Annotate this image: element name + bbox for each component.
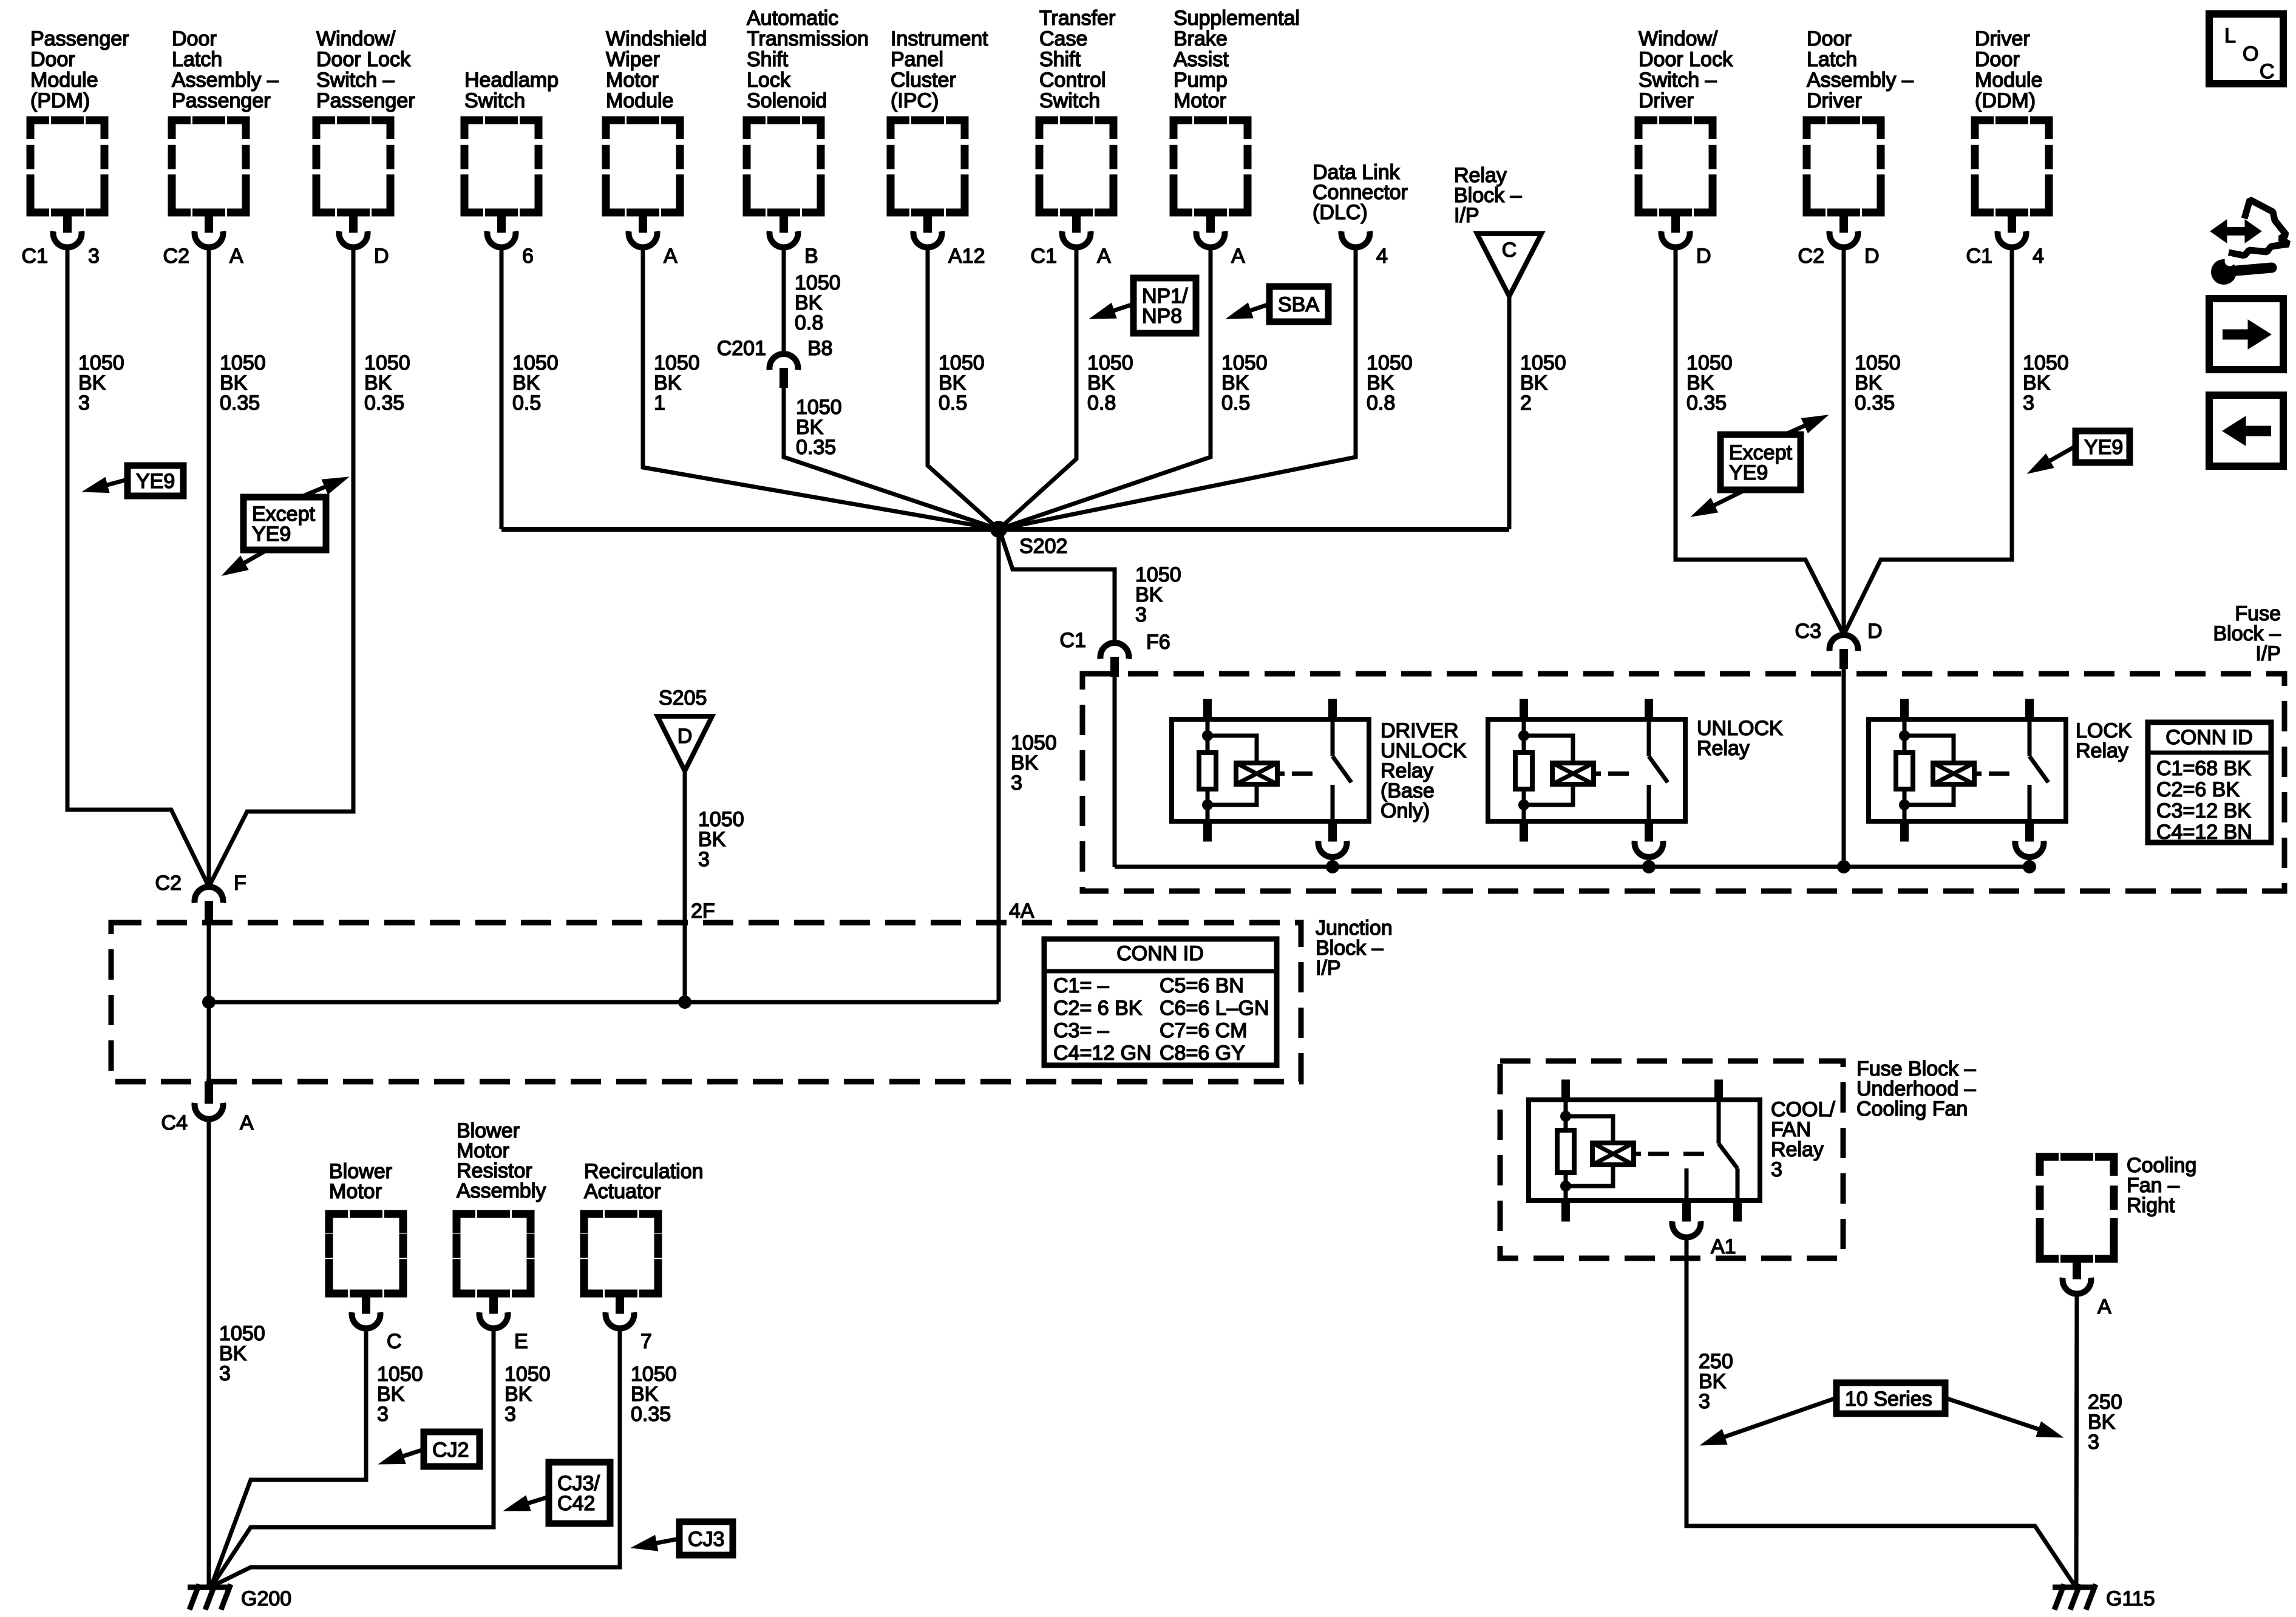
svg-text:E: E bbox=[514, 1330, 528, 1353]
connector box Window/Door Lock Switch Driver bbox=[1639, 27, 1733, 268]
svg-text:Door: Door bbox=[1975, 48, 2020, 71]
relay block triangle C bbox=[1477, 234, 1541, 296]
connector box Automatic Transmission Shift Lock Solenoid bbox=[747, 7, 869, 268]
junction dot C3 wire bbox=[1837, 860, 1850, 873]
svg-text:G200: G200 bbox=[241, 1587, 291, 1610]
svg-text:C2: C2 bbox=[155, 872, 182, 895]
junction dot driver unlock bbox=[1326, 860, 1339, 873]
svg-text:4: 4 bbox=[1376, 245, 1388, 268]
data link connector (DLC) label bbox=[1313, 161, 1408, 224]
svg-text:(DDM): (DDM) bbox=[1975, 89, 2036, 112]
junction block I/P label bbox=[1316, 917, 1393, 980]
svg-text:0.5: 0.5 bbox=[512, 392, 541, 415]
svg-text:3: 3 bbox=[1011, 771, 1022, 795]
pin label 4 DLC bbox=[1376, 245, 1388, 268]
svg-text:0.8: 0.8 bbox=[1087, 392, 1116, 415]
wire label 0.5 for Instrument Panel Cluster bbox=[939, 351, 985, 415]
svg-text:3: 3 bbox=[1699, 1390, 1710, 1413]
unlock relay label bbox=[1697, 717, 1783, 760]
svg-text:C2: C2 bbox=[1798, 245, 1824, 268]
svg-text:0.35: 0.35 bbox=[796, 436, 836, 459]
svg-text:2: 2 bbox=[1520, 392, 1532, 415]
wire S205 to junction block 2F bbox=[683, 771, 687, 1002]
svg-text:C2=6 BK: C2=6 BK bbox=[2156, 778, 2240, 801]
driver unlock relay label bbox=[1381, 719, 1467, 822]
fuse block I/P dashed border bbox=[1082, 674, 2284, 891]
connector box Supplemental Brake Assist Pump Motor bbox=[1173, 7, 1300, 268]
wire S202 to junction block 4A bbox=[997, 529, 1001, 1002]
lock relay label bbox=[2076, 719, 2132, 762]
svg-text:4A: 4A bbox=[1009, 900, 1034, 923]
callout YE9 left bbox=[83, 466, 183, 496]
svg-text:C4: C4 bbox=[161, 1111, 188, 1134]
svg-text:A12: A12 bbox=[948, 245, 985, 268]
svg-text:Assembly –: Assembly – bbox=[1807, 69, 1914, 92]
wire label 0.5 for Headlamp Switch bbox=[512, 351, 559, 415]
svg-text:3: 3 bbox=[78, 392, 90, 415]
junction block internal bus bbox=[209, 1000, 999, 1005]
ground G115 bbox=[2053, 1584, 2155, 1610]
callout CJ3 bbox=[631, 1522, 733, 1555]
svg-text:C1: C1 bbox=[1031, 245, 1057, 268]
svg-text:Cooling Fan: Cooling Fan bbox=[1856, 1097, 1968, 1120]
svg-text:Switch: Switch bbox=[1039, 89, 1100, 112]
svg-text:SBA: SBA bbox=[1278, 293, 1319, 316]
svg-text:C7=6 CM: C7=6 CM bbox=[1160, 1019, 1248, 1042]
svg-text:Supplemental: Supplemental bbox=[1173, 7, 1300, 30]
svg-text:0.5: 0.5 bbox=[1221, 392, 1250, 415]
blower motor box bbox=[329, 1214, 403, 1293]
svg-text:D: D bbox=[1696, 245, 1711, 268]
svg-text:Module: Module bbox=[606, 89, 674, 112]
svg-text:NP8: NP8 bbox=[1142, 305, 1182, 328]
wire C1 F6 to relay bus bbox=[1113, 676, 1117, 867]
callout Except YE9 right bbox=[1691, 415, 1828, 517]
svg-text:Instrument: Instrument bbox=[891, 27, 988, 50]
svg-text:Latch: Latch bbox=[1807, 48, 1857, 71]
junction block I/P dashed border bbox=[111, 923, 1301, 1082]
svg-text:(PDM): (PDM) bbox=[30, 89, 90, 112]
svg-text:CONN ID: CONN ID bbox=[2165, 726, 2253, 749]
svg-text:D: D bbox=[1864, 245, 1880, 268]
svg-text:0.8: 0.8 bbox=[795, 311, 823, 334]
wire wiper motor to S202 bbox=[643, 247, 999, 529]
svg-text:F6: F6 bbox=[1146, 631, 1170, 654]
svg-text:A: A bbox=[664, 245, 678, 268]
svg-text:A: A bbox=[2097, 1295, 2111, 1318]
wire label 1 for Windshield Wiper Motor Module bbox=[654, 351, 700, 415]
blower motor resistor label bbox=[457, 1119, 546, 1202]
wire PDM to C2 F bbox=[67, 247, 209, 887]
svg-text:Window/: Window/ bbox=[1639, 27, 1718, 50]
connector box Headlamp Switch bbox=[464, 69, 559, 268]
wire label 0.35 for Window/Door Lock Switch Driver bbox=[1686, 351, 1733, 415]
svg-text:C1=68 BK: C1=68 BK bbox=[2156, 757, 2251, 780]
svg-text:C2: C2 bbox=[163, 245, 189, 268]
wire door latch driver to C3 D bbox=[1842, 247, 1846, 635]
svg-text:3: 3 bbox=[1771, 1158, 1782, 1181]
connector C3 D into fuse block bbox=[1795, 620, 1883, 669]
connector cup blower motor bbox=[352, 1293, 402, 1353]
svg-text:Automatic: Automatic bbox=[747, 7, 838, 30]
connector C2 F into junction block bbox=[155, 872, 246, 921]
svg-text:S205: S205 bbox=[659, 686, 707, 710]
svg-text:Assembly –: Assembly – bbox=[172, 69, 279, 92]
svg-text:C: C bbox=[1502, 239, 1517, 262]
connector box Window/Door Lock Switch Passenger bbox=[316, 27, 415, 268]
svg-text:A: A bbox=[229, 245, 243, 268]
svg-text:0.35: 0.35 bbox=[1855, 392, 1895, 415]
wire junction bus to C4 A bbox=[207, 1002, 211, 1082]
wire label 1050 BK 3 (4A feed) bbox=[1011, 731, 1057, 795]
svg-text:Relay: Relay bbox=[2076, 739, 2128, 762]
wire label C4 A bbox=[219, 1322, 265, 1385]
service manual icon (arrow and wrench) bbox=[2210, 200, 2289, 285]
connector box Door Latch Assembly Passenger bbox=[163, 27, 279, 268]
svg-text:C1: C1 bbox=[1966, 245, 1992, 268]
label S202 bbox=[1019, 535, 1067, 558]
svg-text:Assembly: Assembly bbox=[457, 1179, 546, 1202]
wire transfer case to S202 bbox=[999, 247, 1076, 529]
back arrow box bbox=[2209, 395, 2283, 466]
svg-text:YE9: YE9 bbox=[1729, 461, 1768, 484]
svg-text:Door: Door bbox=[1807, 27, 1852, 50]
callout CJ2 bbox=[379, 1432, 480, 1466]
connector cup driver unlock relay output bbox=[1319, 841, 1347, 867]
svg-text:YE9: YE9 bbox=[252, 523, 291, 546]
svg-text:CONN ID: CONN ID bbox=[1116, 942, 1204, 965]
svg-text:Transfer: Transfer bbox=[1039, 7, 1115, 30]
wire blower motor to G200 bbox=[211, 1328, 366, 1586]
svg-text:C2= 6 BK: C2= 6 BK bbox=[1053, 997, 1143, 1020]
svg-text:2F: 2F bbox=[691, 900, 715, 923]
wire recirculation to G200 bbox=[212, 1328, 620, 1586]
junction dot C2 F wire bbox=[202, 995, 216, 1009]
svg-text:C5=6 BN: C5=6 BN bbox=[1160, 974, 1244, 997]
svg-text:YE9: YE9 bbox=[136, 470, 175, 493]
wire label 1050 BK 3 (C1 F6 feed) bbox=[1135, 563, 1181, 626]
svg-text:C8=6 GY: C8=6 GY bbox=[1160, 1042, 1245, 1065]
svg-text:C: C bbox=[387, 1330, 402, 1353]
svg-text:O: O bbox=[2243, 42, 2258, 66]
fuse block I/P label bbox=[2213, 602, 2281, 665]
svg-text:3: 3 bbox=[88, 245, 100, 268]
svg-text:0.35: 0.35 bbox=[1686, 392, 1727, 415]
svg-text:CJ2: CJ2 bbox=[432, 1439, 469, 1462]
svg-text:Switch: Switch bbox=[464, 89, 525, 112]
relay block I/P label bbox=[1454, 164, 1522, 227]
svg-text:Door Lock: Door Lock bbox=[1639, 48, 1733, 71]
svg-text:A1: A1 bbox=[1711, 1235, 1736, 1258]
fuse block underhood dashed border bbox=[1500, 1061, 1843, 1258]
svg-text:Motor: Motor bbox=[606, 69, 659, 92]
connector cup recirculation actuator bbox=[606, 1293, 652, 1353]
svg-text:B: B bbox=[804, 245, 818, 268]
svg-text:D: D bbox=[374, 245, 389, 268]
wire label DLC bbox=[1367, 351, 1413, 415]
callout Except YE9 left bbox=[222, 477, 348, 575]
LOC legend box bbox=[2209, 14, 2283, 84]
svg-text:Driver: Driver bbox=[1975, 27, 2030, 50]
connector C4 A out of junction block bbox=[161, 1082, 254, 1134]
svg-text:(DLC): (DLC) bbox=[1313, 201, 1368, 224]
connector cup cooling fan A bbox=[2062, 1259, 2111, 1318]
svg-text:1: 1 bbox=[654, 392, 665, 415]
wire label resistor E bbox=[504, 1363, 551, 1426]
svg-text:I/P: I/P bbox=[1454, 204, 1479, 227]
svg-text:7: 7 bbox=[640, 1330, 652, 1353]
svg-text:C1: C1 bbox=[1060, 629, 1086, 652]
svg-text:I/P: I/P bbox=[1316, 957, 1341, 980]
wire S202 to C1 F6 bbox=[1002, 537, 1115, 643]
connector C1 F6 into fuse block bbox=[1060, 629, 1170, 677]
cool fan relay label bbox=[1771, 1098, 1835, 1181]
svg-text:Motor: Motor bbox=[1173, 89, 1226, 112]
svg-text:0.8: 0.8 bbox=[1367, 392, 1395, 415]
cooling fan right box bbox=[2040, 1157, 2114, 1259]
svg-text:Pump: Pump bbox=[1173, 69, 1228, 92]
svg-text:Motor: Motor bbox=[329, 1180, 382, 1203]
svg-text:C1= –: C1= – bbox=[1053, 974, 1109, 997]
svg-text:3: 3 bbox=[698, 848, 710, 871]
forward arrow box bbox=[2209, 299, 2283, 370]
wire window door lock passenger to C2 F bbox=[209, 247, 353, 887]
svg-text:Case: Case bbox=[1039, 27, 1087, 50]
wire label 0.35 for Door Latch Assembly Driver bbox=[1855, 351, 1901, 415]
svg-text:3: 3 bbox=[377, 1403, 389, 1426]
label S205 bbox=[659, 686, 707, 710]
svg-text:C1: C1 bbox=[22, 245, 48, 268]
svg-text:Window/: Window/ bbox=[316, 27, 396, 50]
wire label blower C bbox=[377, 1363, 423, 1426]
connector C201 B8 inline bbox=[717, 337, 833, 388]
svg-text:3: 3 bbox=[504, 1403, 516, 1426]
svg-text:Lock: Lock bbox=[747, 69, 791, 92]
callout NP1/NP8 bbox=[1090, 278, 1196, 333]
splice S202 dot bbox=[990, 521, 1007, 538]
wire cooling fan to G115 bbox=[2076, 1293, 2077, 1586]
wire label relay block bbox=[1520, 351, 1566, 415]
svg-text:B8: B8 bbox=[807, 337, 833, 360]
wire C3 D to relay bus bbox=[1842, 668, 1846, 867]
svg-text:Panel: Panel bbox=[891, 48, 943, 71]
wire label 0.35 for Door Latch Assembly Passenger bbox=[220, 351, 266, 415]
wire label S205 bbox=[698, 808, 744, 871]
svg-text:(IPC): (IPC) bbox=[891, 89, 939, 112]
svg-text:Passenger: Passenger bbox=[316, 89, 415, 112]
svg-text:Shift: Shift bbox=[1039, 48, 1081, 71]
wire supplemental brake to S202 bbox=[999, 247, 1211, 529]
svg-text:G115: G115 bbox=[2106, 1587, 2155, 1610]
wire label recirculation bbox=[631, 1363, 677, 1426]
svg-text:L: L bbox=[2224, 24, 2236, 47]
wire DLC to S202 bbox=[999, 247, 1356, 529]
svg-text:Only): Only) bbox=[1381, 799, 1430, 822]
svg-text:Switch –: Switch – bbox=[1639, 69, 1717, 92]
callout SBA bbox=[1226, 286, 1328, 322]
svg-text:4: 4 bbox=[2033, 245, 2044, 268]
wire blower resistor to G200 bbox=[212, 1328, 494, 1586]
svg-text:Actuator: Actuator bbox=[584, 1180, 661, 1203]
svg-text:0.35: 0.35 bbox=[631, 1403, 671, 1426]
svg-text:C3: C3 bbox=[1795, 620, 1821, 643]
svg-text:3: 3 bbox=[219, 1362, 231, 1385]
svg-text:Brake: Brake bbox=[1173, 27, 1228, 50]
svg-text:Windshield: Windshield bbox=[606, 27, 707, 50]
connector cup DLC bbox=[1342, 231, 1370, 248]
svg-text:Solenoid: Solenoid bbox=[747, 89, 827, 112]
svg-text:Module: Module bbox=[1975, 69, 2043, 92]
svg-text:Transmission: Transmission bbox=[747, 27, 869, 50]
svg-text:3: 3 bbox=[2023, 392, 2034, 415]
svg-text:C4=12 BN: C4=12 BN bbox=[2156, 821, 2252, 844]
connector box Instrument Panel Cluster bbox=[891, 27, 988, 268]
connector cup A1 bbox=[1673, 1221, 1736, 1258]
fuse block underhood label bbox=[1856, 1057, 1976, 1120]
wire door latch passenger to C2 F bbox=[207, 247, 211, 887]
wire S202 horizontal bus bbox=[501, 527, 1509, 532]
svg-text:3: 3 bbox=[1135, 603, 1147, 626]
svg-text:0.35: 0.35 bbox=[364, 392, 404, 415]
svg-text:S202: S202 bbox=[1019, 535, 1067, 558]
wire C4 A to G200 bbox=[207, 1119, 211, 1586]
connector box Transfer Case Shift Control Switch bbox=[1031, 7, 1116, 268]
svg-text:C6=6 L–GN: C6=6 L–GN bbox=[1160, 997, 1269, 1020]
svg-text:Headlamp: Headlamp bbox=[464, 69, 559, 92]
wire label 0.8 for Transfer Case Shift Control Switch bbox=[1087, 351, 1133, 415]
connector cup blower resistor bbox=[480, 1293, 528, 1353]
wire label 3 for Driver Door Module bbox=[2023, 351, 2069, 415]
CONN ID table fuse block bbox=[2148, 722, 2271, 844]
blower motor resistor box bbox=[457, 1214, 531, 1293]
svg-text:D: D bbox=[678, 725, 693, 748]
connector box Driver Door Module bbox=[1966, 27, 2049, 268]
connector box Passenger Door Module bbox=[22, 27, 129, 268]
wire shift lock solenoid lower to S202 bbox=[784, 387, 999, 529]
svg-text:0.35: 0.35 bbox=[220, 392, 260, 415]
junction dot lock bbox=[2023, 860, 2036, 873]
svg-text:CJ3: CJ3 bbox=[688, 1528, 724, 1551]
wire IPC to S202 bbox=[928, 247, 999, 529]
svg-text:Door: Door bbox=[30, 48, 75, 71]
svg-text:A: A bbox=[1231, 245, 1245, 268]
svg-text:Shift: Shift bbox=[747, 48, 789, 71]
wire headlamp switch to S202 bus bbox=[500, 247, 504, 529]
recirculation actuator box bbox=[584, 1214, 658, 1293]
connector cup lock relay output bbox=[2016, 841, 2044, 867]
CONN ID table junction block bbox=[1044, 939, 1277, 1065]
callout 10 Series bbox=[1700, 1383, 2063, 1445]
svg-text:A: A bbox=[1097, 245, 1111, 268]
connector box Windshield Wiper Motor Module bbox=[606, 27, 707, 268]
relay K unlock bbox=[1488, 699, 1685, 841]
wire window door lock driver to C3 D bbox=[1676, 247, 1844, 635]
label 2F bbox=[691, 900, 715, 923]
wire label lower for shift lock solenoid bbox=[796, 396, 842, 459]
callout YE9 right bbox=[2028, 431, 2130, 473]
svg-text:C3=12 BK: C3=12 BK bbox=[2156, 799, 2251, 822]
svg-text:Door Lock: Door Lock bbox=[316, 48, 411, 71]
svg-text:YE9: YE9 bbox=[2084, 436, 2123, 459]
recirculation actuator label bbox=[584, 1160, 704, 1203]
svg-text:A: A bbox=[240, 1111, 254, 1134]
svg-text:Driver: Driver bbox=[1807, 89, 1862, 112]
svg-text:Relay: Relay bbox=[1697, 737, 1750, 760]
svg-text:Switch –: Switch – bbox=[316, 69, 395, 92]
fuse block ground bus bbox=[1115, 865, 2029, 869]
svg-text:Cluster: Cluster bbox=[891, 69, 956, 92]
blower motor label bbox=[329, 1160, 392, 1203]
wire relay block to S202 bus bbox=[1507, 296, 1512, 529]
svg-text:D: D bbox=[1867, 620, 1883, 643]
svg-text:10 Series: 10 Series bbox=[1845, 1388, 1932, 1411]
svg-text:C4=12 GN: C4=12 GN bbox=[1053, 1042, 1152, 1065]
cooling fan right label bbox=[2127, 1154, 2196, 1217]
svg-text:Right: Right bbox=[2127, 1194, 2175, 1217]
svg-text:Control: Control bbox=[1039, 69, 1106, 92]
relay K cool fan bbox=[1529, 1080, 1760, 1221]
junction dot 2F wire bbox=[678, 995, 691, 1009]
svg-text:6: 6 bbox=[522, 245, 534, 268]
svg-text:Wiper: Wiper bbox=[606, 48, 660, 71]
wire shift lock solenoid upper segment bbox=[782, 247, 786, 354]
svg-text:C3= –: C3= – bbox=[1053, 1019, 1109, 1042]
svg-text:Passenger: Passenger bbox=[30, 27, 129, 50]
svg-text:Module: Module bbox=[30, 69, 98, 92]
svg-text:0.5: 0.5 bbox=[939, 392, 967, 415]
wire A1 to G115 bbox=[1686, 1240, 2075, 1586]
wire label 3 for Passenger Door Module bbox=[78, 351, 124, 415]
svg-text:F: F bbox=[234, 872, 246, 895]
relay K driver unlock bbox=[1172, 699, 1369, 841]
wire label 0.35 for Window/Door Lock Switch Passenger bbox=[364, 351, 410, 415]
callout CJ3/C42 bbox=[504, 1462, 610, 1524]
ground G200 bbox=[188, 1584, 291, 1610]
svg-text:Driver: Driver bbox=[1639, 89, 1694, 112]
wire label upper for shift lock solenoid bbox=[795, 271, 841, 334]
connector cup unlock relay output bbox=[1635, 841, 1663, 867]
svg-text:C201: C201 bbox=[717, 337, 766, 360]
relay K lock bbox=[1869, 699, 2066, 841]
wire label 0.5 for Supplemental Brake Assist Pump Motor bbox=[1221, 351, 1268, 415]
svg-text:Assist: Assist bbox=[1173, 48, 1229, 71]
wire label A1 250 BK 3 bbox=[1699, 1350, 1733, 1413]
splice S205 triangle bbox=[657, 716, 712, 771]
label 4A bbox=[1009, 900, 1034, 923]
svg-text:C: C bbox=[2260, 60, 2275, 83]
svg-text:C42: C42 bbox=[557, 1492, 595, 1515]
junction dot unlock bbox=[1642, 860, 1656, 873]
svg-text:Passenger: Passenger bbox=[172, 89, 271, 112]
svg-text:3: 3 bbox=[2088, 1431, 2099, 1454]
wire DDM to C3 D bbox=[1844, 247, 2012, 635]
svg-text:I/P: I/P bbox=[2255, 642, 2281, 665]
svg-text:Door: Door bbox=[172, 27, 217, 50]
wire label fan 250 BK 3 bbox=[2088, 1391, 2122, 1454]
svg-text:Latch: Latch bbox=[172, 48, 222, 71]
wire C2 F into junction bus bbox=[207, 920, 211, 1002]
connector box Door Latch Assembly Driver bbox=[1798, 27, 1914, 268]
